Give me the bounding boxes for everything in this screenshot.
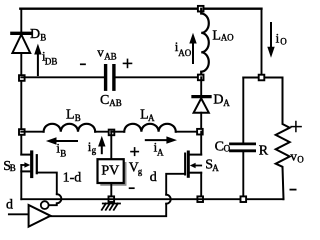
svg-text:DB: DB bbox=[45, 57, 58, 67]
wire S_A gate lead bbox=[166, 174, 185, 195]
wire inverter output to S_A gate bbox=[51, 204, 167, 217]
label + (v_O plus) bbox=[291, 122, 301, 132]
wire row left stub bbox=[21, 131, 43, 133]
wire output top bbox=[243, 77, 282, 79]
inverter U1 bbox=[29, 205, 51, 227]
svg-text:B: B bbox=[75, 113, 81, 123]
svg-text:C: C bbox=[215, 140, 224, 155]
svg-text:D: D bbox=[30, 27, 40, 42]
arrow i_AO bbox=[189, 33, 196, 63]
S_B drain stub bbox=[21, 154, 30, 156]
node C_AB left bbox=[19, 75, 25, 81]
node S_A source on rail bbox=[197, 196, 203, 202]
arrow i_DB bbox=[34, 44, 41, 76]
inductor L_B bbox=[44, 124, 96, 132]
wire S_A drain bbox=[200, 132, 202, 155]
label - (V_g minus) bbox=[130, 187, 134, 189]
svg-text:AB: AB bbox=[104, 52, 117, 62]
svg-text:PV: PV bbox=[101, 163, 119, 178]
node L_A right / S_A drain junction bbox=[197, 129, 203, 135]
wire left rail middle (D_B anode down to S_B drain) bbox=[20, 53, 22, 155]
S_A body arrow bbox=[195, 165, 201, 167]
PV box shadow bbox=[100, 162, 126, 186]
svg-text:1-d: 1-d bbox=[63, 170, 82, 185]
wire bottom rail bbox=[21, 198, 283, 200]
svg-text:O: O bbox=[224, 144, 231, 154]
diode D_A bbox=[193, 97, 210, 113]
resistor R bbox=[276, 78, 290, 200]
wire to inverter bubble bbox=[49, 203, 57, 205]
node ground bbox=[109, 196, 115, 202]
wire D_A cathode bbox=[200, 77, 202, 95]
S_A channel bar bbox=[187, 152, 190, 176]
svg-text:D: D bbox=[213, 92, 223, 107]
wire row between L_B and PV node bbox=[95, 131, 111, 133]
inductor L_AO bbox=[201, 9, 209, 78]
transistor S_A bbox=[185, 152, 201, 176]
wire C_O top lead bbox=[242, 78, 244, 143]
node L_B left bbox=[19, 129, 25, 135]
wire top horizontal bbox=[20, 8, 261, 10]
wire row between PV node and L_A bbox=[111, 131, 124, 133]
svg-text:O: O bbox=[297, 155, 304, 165]
wire D_A anode to row node bbox=[200, 113, 202, 132]
arrow i_A bbox=[146, 136, 177, 143]
wire S_B gate lead (1-d) bbox=[37, 173, 57, 195]
node output top bbox=[259, 75, 265, 81]
S_A drain stub bbox=[190, 154, 201, 156]
S_B channel bar bbox=[30, 152, 33, 177]
label - (v_O minus) bbox=[290, 189, 295, 191]
transistor S_B bbox=[21, 152, 37, 177]
wire C_AB row right bbox=[116, 76, 202, 78]
inverter bubble bbox=[41, 201, 49, 209]
svg-text:B: B bbox=[10, 163, 16, 173]
wire PV top lead bbox=[110, 132, 112, 160]
S_A source stub bbox=[190, 172, 201, 174]
S_B body arrow bbox=[21, 164, 25, 166]
wire row right stub bbox=[176, 131, 201, 133]
svg-text:d: d bbox=[6, 198, 13, 213]
arrow i_O bbox=[267, 23, 274, 58]
wire d input bbox=[9, 213, 29, 215]
svg-text:B: B bbox=[60, 148, 66, 158]
svg-text:L: L bbox=[66, 108, 75, 123]
svg-text:g: g bbox=[138, 166, 143, 176]
svg-text:R: R bbox=[259, 143, 269, 158]
S_B source stub bbox=[21, 170, 30, 172]
diode D_B bbox=[12, 33, 31, 53]
node PV top bbox=[109, 130, 115, 136]
svg-text:B: B bbox=[40, 32, 46, 42]
capacitor C_O bbox=[231, 144, 255, 151]
arrow i_B bbox=[46, 137, 77, 144]
wire C_O bottom lead bbox=[242, 152, 244, 199]
ground bbox=[102, 204, 120, 210]
PV box bbox=[98, 159, 124, 183]
wire C_AB row left bbox=[21, 76, 104, 78]
svg-text:AO: AO bbox=[221, 33, 234, 43]
wire right drop (top wire to output node) bbox=[261, 9, 263, 78]
svg-text:A: A bbox=[148, 113, 155, 123]
svg-text:d: d bbox=[150, 170, 157, 185]
svg-text:i: i bbox=[276, 30, 280, 45]
capacitor C_AB bbox=[106, 66, 114, 90]
wire S_A source bbox=[200, 173, 202, 200]
wire left rail upper (to D_B cathode) bbox=[20, 9, 22, 32]
wire hop over rail (d) bbox=[166, 195, 171, 204]
arrow i_g bbox=[98, 136, 105, 153]
label - (v_AB minus) bbox=[81, 63, 85, 65]
node L_AO top bbox=[198, 6, 204, 12]
S_A gate bar bbox=[184, 154, 186, 175]
svg-text:A: A bbox=[223, 98, 230, 108]
node C_O bottom bbox=[241, 196, 247, 202]
node L_AO bottom / D_A cathode junction bbox=[198, 75, 204, 81]
S_B gate bar bbox=[36, 155, 38, 173]
svg-text:A: A bbox=[212, 163, 219, 173]
svg-text:O: O bbox=[280, 36, 287, 46]
label + (V_g plus) bbox=[131, 148, 138, 155]
wire hop over rail (1-d) bbox=[57, 194, 62, 203]
svg-text:L: L bbox=[212, 28, 221, 43]
svg-text:g: g bbox=[92, 145, 97, 155]
inductor L_A bbox=[124, 124, 176, 132]
wire PV bottom lead bbox=[110, 183, 112, 199]
label + (v_AB plus) bbox=[124, 59, 132, 67]
wire left rail lower (S_B source to rail) bbox=[20, 165, 22, 199]
svg-text:C: C bbox=[100, 93, 109, 108]
svg-text:A: A bbox=[157, 147, 164, 157]
svg-text:AB: AB bbox=[109, 98, 122, 108]
svg-text:AO: AO bbox=[178, 48, 191, 58]
